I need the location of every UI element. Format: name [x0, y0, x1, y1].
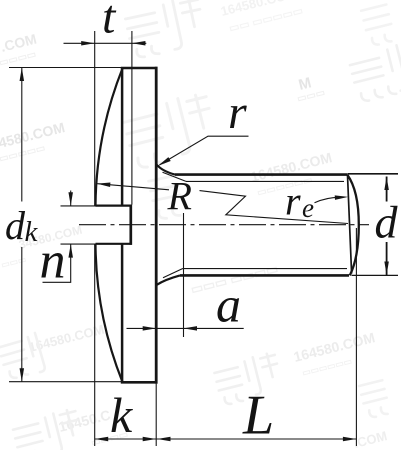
svg-text:k: k: [25, 216, 39, 248]
head rim line: [121, 68, 124, 382]
dim k right / L left extension: [155, 384, 157, 446]
arrow d bottom: [384, 262, 389, 276]
dim t/k left extension lower: [94, 244, 96, 446]
arrow n top: [68, 192, 73, 206]
shank top outline: [175, 173, 347, 176]
arrow t left: [81, 41, 95, 46]
thread crest line top: [186, 180, 344, 182]
thread runout bottom: [163, 269, 183, 278]
head dome curve lower: [96, 244, 123, 382]
svg-text:a: a: [216, 277, 241, 333]
arrow a left: [143, 326, 157, 331]
head bottom edge: [121, 381, 158, 384]
svg-text:▭▭▭: ▭▭▭: [0, 254, 27, 270]
dim dk top extension: [9, 67, 121, 69]
dim a extension: [183, 213, 185, 337]
svg-text:L: L: [242, 385, 274, 447]
dim L right extension: [355, 228, 357, 446]
arrow re leader: [335, 195, 349, 200]
svg-text:.COM: .COM: [352, 428, 389, 450]
slot bottom face: [129, 205, 132, 245]
svg-text:t: t: [102, 0, 117, 44]
dim t right extension: [131, 31, 133, 205]
dim n top extension: [61, 205, 97, 207]
leader R to dome: [98, 184, 170, 190]
dim dk bottom extension: [9, 381, 121, 383]
dim n bottom extension: [61, 243, 97, 245]
svg-text:d: d: [5, 203, 26, 248]
leader r: [160, 136, 249, 165]
head top edge: [121, 67, 158, 70]
dim t line: [64, 42, 147, 44]
arrow L right: [343, 437, 357, 442]
svg-text:e: e: [302, 193, 314, 223]
dim d top extension: [348, 173, 399, 175]
arrow n bottom: [68, 244, 73, 258]
svg-text:k: k: [110, 387, 133, 443]
dim d line: [386, 177, 388, 276]
svg-text:n: n: [40, 233, 66, 290]
arrow t right: [132, 41, 146, 46]
fillet top R: [157, 165, 175, 175]
leader re: [315, 197, 340, 202]
dim t left extension upper: [94, 31, 96, 206]
shank bottom outline: [180, 274, 349, 277]
arrow k right: [143, 437, 157, 442]
thread runout top: [163, 172, 187, 181]
thread crest line bottom: [183, 268, 348, 270]
arrow k left: [95, 437, 109, 442]
leader zigzag R-re: [200, 191, 349, 224]
arrow a right: [184, 326, 198, 331]
svg-text:r: r: [228, 86, 247, 139]
dim k/L line: [95, 438, 357, 440]
dim n line lower leader: [43, 244, 71, 282]
arrow r leader: [158, 157, 171, 166]
fillet bottom R: [157, 275, 180, 284]
svg-text:R: R: [167, 174, 192, 219]
svg-text:r: r: [285, 179, 301, 224]
svg-text:16450.C: 16450.C: [57, 407, 112, 435]
dim d bottom extension: [352, 274, 399, 276]
arrow dk top: [20, 68, 25, 82]
center line axis: [79, 224, 369, 226]
dim n line upper: [70, 191, 72, 206]
arrow d top: [384, 177, 389, 191]
arrow R leader: [97, 183, 111, 188]
sphere tangent line: [348, 175, 352, 274]
slot bottom edge: [96, 243, 132, 245]
arrow dk bottom: [20, 368, 25, 382]
slot top edge: [96, 205, 132, 207]
head right bearing face: [155, 67, 158, 384]
head dome curve upper: [96, 69, 123, 206]
shank end dome re: [347, 175, 359, 276]
svg-text:d: d: [375, 197, 399, 248]
dim dk line: [21, 68, 23, 382]
dim a line: [127, 327, 244, 329]
arrow L left: [157, 437, 171, 442]
